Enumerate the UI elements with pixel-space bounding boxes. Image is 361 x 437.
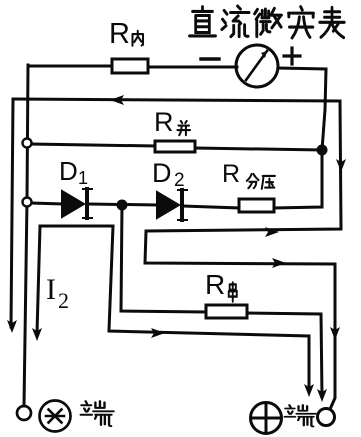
svg-text:R: R (222, 160, 240, 188)
svg-text:D: D (59, 156, 78, 186)
svg-text:2: 2 (58, 288, 69, 313)
svg-text:R: R (205, 269, 225, 300)
svg-text:1: 1 (78, 168, 88, 188)
svg-text:R: R (109, 18, 130, 50)
svg-text:I: I (46, 273, 56, 306)
svg-text:D: D (152, 158, 172, 188)
svg-text:2: 2 (174, 170, 185, 191)
svg-text:R: R (154, 107, 174, 137)
